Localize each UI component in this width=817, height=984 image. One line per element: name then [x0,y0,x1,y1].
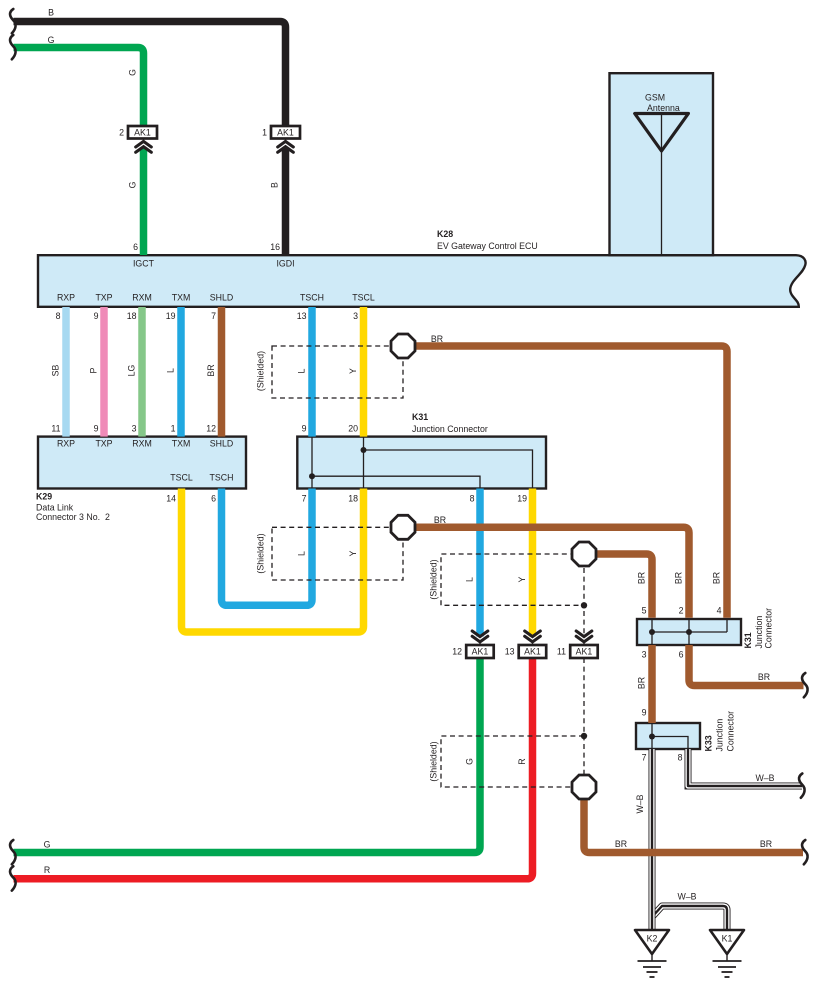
svg-text:RXP: RXP [57,439,75,449]
K31 right junction box [637,619,741,645]
svg-text:TXM: TXM [172,439,191,449]
svg-text:7: 7 [211,311,216,321]
svg-text:5: 5 [642,606,647,616]
svg-text:18: 18 [127,311,137,321]
svg-text:AK1: AK1 [524,647,541,657]
svg-text:BR: BR [206,364,216,376]
svg-text:Connector: Connector [726,711,736,752]
wire L elbow K29 TSCH to K31 pin7 [222,489,313,606]
svg-text:Connector 3 No. 2: Connector 3 No. 2 [36,512,110,522]
svg-text:B: B [48,8,54,18]
svg-text:11: 11 [51,424,60,434]
svg-text:W–B: W–B [677,892,696,902]
K29 box [38,437,246,489]
svg-text:G: G [44,839,51,849]
svg-text:TXM: TXM [172,293,191,303]
chevrons under 2 AK1 [136,141,152,152]
svg-text:Junction Connector: Junction Connector [412,424,488,434]
wire LG [138,307,146,437]
svg-text:19: 19 [517,494,527,504]
svg-text:W–B: W–B [635,794,645,813]
svg-text:G: G [48,35,55,45]
shield ground octagon 4 [572,775,596,799]
svg-text:12: 12 [452,647,462,657]
svg-text:BR: BR [431,334,443,344]
svg-text:13: 13 [505,647,515,657]
shield box 4 dashed [441,736,584,787]
svg-text:P: P [89,367,99,373]
svg-text:9: 9 [94,311,99,321]
wire Y K31 pin19 to AK1 13 [529,489,537,637]
svg-text:G: G [128,181,138,188]
svg-text:TXP: TXP [95,293,112,303]
svg-text:W–B: W–B [755,773,774,783]
break squiggle wire G left [10,35,16,59]
break squiggle BR right pin6 [802,673,808,697]
svg-text:3: 3 [642,650,647,660]
shield drain dashed segment AK1 11 to shield4 [583,658,585,774]
svg-text:AK1: AK1 [472,647,489,657]
svg-text:16: 16 [270,242,280,252]
svg-text:LG: LG [127,364,137,376]
svg-text:2: 2 [119,128,124,138]
svg-text:7: 7 [642,753,647,763]
svg-text:K31: K31 [412,412,428,422]
svg-text:RXM: RXM [132,439,152,449]
K33 internal lines [652,723,688,749]
svg-text:L: L [297,368,307,373]
svg-text:BR: BR [674,572,684,584]
ground K1 [710,930,744,954]
svg-text:Y: Y [517,576,527,582]
wire BR K31 pin6 to right [689,645,804,686]
svg-text:Y: Y [348,368,358,374]
svg-text:K2: K2 [647,934,658,944]
shield box 1 dashed [272,346,403,398]
svg-text:EV Gateway Control ECU: EV Gateway Control ECU [437,241,538,251]
svg-text:3: 3 [132,424,137,434]
svg-text:20: 20 [348,424,358,434]
svg-text:7: 7 [302,494,307,504]
wire Y TSCL ECU to K31 [360,307,368,437]
svg-text:9: 9 [94,424,99,434]
connector 1 AK1 top [271,126,300,139]
svg-text:Antenna: Antenna [647,103,680,113]
svg-text:Junction: Junction [715,719,725,752]
connector 2 AK1 top [128,126,157,139]
svg-text:TSCH: TSCH [210,473,234,483]
svg-text:TXP: TXP [95,439,112,449]
svg-text:(Shielded): (Shielded) [429,559,439,599]
svg-text:(Shielded): (Shielded) [429,741,439,781]
wire P [100,307,108,437]
svg-text:AK1: AK1 [134,128,151,138]
wire BR shield3 to K31 pin5 [595,554,652,618]
GSM antenna box [610,73,714,255]
wire W-B branch to K1 [652,906,727,930]
svg-text:G: G [465,758,475,765]
K31 left junction dots [361,447,367,453]
wire L TXM [177,307,185,437]
break squiggle BR bottom right [802,840,808,864]
shield drain dashed segment oct3 to AK1 11 [583,568,585,634]
svg-text:R: R [44,865,50,875]
wire G green top [14,48,144,128]
svg-text:RXP: RXP [57,293,75,303]
K31 left internal lines [312,437,533,489]
svg-text:8: 8 [470,494,475,504]
ground K2 [635,930,669,954]
svg-text:18: 18 [348,494,358,504]
svg-text:4: 4 [717,606,722,616]
svg-text:(Shielded): (Shielded) [256,533,266,573]
wire W-B K33 pin8 [688,749,802,786]
svg-text:(Shielded): (Shielded) [256,351,266,391]
svg-text:BR: BR [712,572,722,584]
wire SB [62,307,70,437]
svg-text:L: L [297,551,307,556]
svg-text:BR: BR [760,839,772,849]
svg-text:19: 19 [166,311,176,321]
svg-text:K1: K1 [722,934,733,944]
svg-text:8: 8 [56,311,61,321]
svg-text:Connector: Connector [764,608,774,649]
wire BR ECU SHLD to K29 [218,307,226,437]
svg-text:BR: BR [615,839,627,849]
svg-text:Junction: Junction [754,616,764,649]
svg-text:1: 1 [171,424,176,434]
wire BR shield4 to right [584,798,803,853]
svg-text:B: B [270,182,280,188]
wire BR K31 pin3 to K33 pin9 [648,645,656,723]
svg-text:TSCH: TSCH [300,293,324,303]
svg-text:IGCT: IGCT [133,259,155,269]
shield ground octagon 1 [391,334,415,358]
shield box 2 dashed [272,527,403,580]
break squiggle wire B left [10,9,16,33]
svg-text:AK1: AK1 [277,128,294,138]
svg-text:1: 1 [262,128,267,138]
svg-text:12: 12 [206,424,216,434]
svg-text:6: 6 [679,650,684,660]
svg-text:Y: Y [348,550,358,556]
K31 left junction box [297,437,546,489]
svg-text:6: 6 [211,494,216,504]
K31 right internal lines [652,619,727,645]
wire R red bottom [14,658,533,879]
svg-text:TSCL: TSCL [352,293,375,303]
svg-text:K31: K31 [743,632,753,648]
svg-text:IGDI: IGDI [276,259,294,269]
wire B black AK1 to ECU [282,148,290,256]
svg-text:K29: K29 [36,492,52,502]
wire B black top [14,22,286,128]
shield ground octagon 3 [572,542,596,566]
svg-text:BR: BR [637,677,647,689]
svg-text:3: 3 [353,311,358,321]
connector 12 AK1 [472,631,488,642]
K31 right junction dots [649,629,655,635]
svg-text:6: 6 [133,242,138,252]
antenna symbol [635,114,689,152]
connector 13 AK1 [525,631,541,642]
drain junction dot 1 [581,602,587,608]
antenna feed wire [661,114,663,255]
wire BR shield1 to K31 pin4 [414,346,727,618]
svg-text:BR: BR [758,672,770,682]
K33 junction box [636,723,700,749]
svg-text:9: 9 [642,708,647,718]
chevrons under 1 AK1 [278,141,294,152]
svg-text:SHLD: SHLD [210,439,233,449]
ECU K28 box [38,255,806,307]
shield ground octagon 2 [391,515,415,539]
svg-text:14: 14 [166,494,176,504]
wire BR shield2 to K31 pin2 [414,527,689,618]
svg-text:K28: K28 [437,229,453,239]
break squiggle W-B right [799,774,805,798]
svg-text:G: G [128,69,138,76]
svg-text:TSCL: TSCL [170,473,193,483]
drain junction dot 2 [581,733,587,739]
svg-text:L: L [166,368,176,373]
wire L K31 pin8 to AK1 12 [476,489,484,637]
break squiggle wire R bottom left [10,866,16,890]
svg-text:R: R [517,758,527,764]
wire G green AK1 to ECU [140,148,148,256]
svg-text:9: 9 [302,424,307,434]
svg-text:11: 11 [557,647,566,657]
svg-text:BR: BR [637,572,647,584]
svg-text:K33: K33 [704,735,714,751]
break squiggle wire G bottom left [10,840,16,864]
K33 junction dot [649,734,655,740]
shield box 3 dashed [441,554,584,605]
svg-text:BR: BR [434,515,446,525]
svg-text:AK1: AK1 [576,647,593,657]
svg-text:GSM: GSM [645,93,665,103]
wire G green bottom [14,658,481,853]
svg-text:SB: SB [51,365,61,377]
svg-text:2: 2 [679,606,684,616]
wire L TSCH ECU to K31 [308,307,316,437]
svg-text:8: 8 [678,753,683,763]
wire W-B K33 pin7 to K2 [649,749,656,930]
svg-text:L: L [465,577,475,582]
wire Y elbow K29 TSCL to K31 pin18 [182,489,364,633]
connector 11 AK1 [576,631,592,642]
svg-text:Data Link: Data Link [36,503,74,513]
svg-text:SHLD: SHLD [210,293,233,303]
svg-text:13: 13 [297,311,307,321]
svg-text:RXM: RXM [132,293,152,303]
